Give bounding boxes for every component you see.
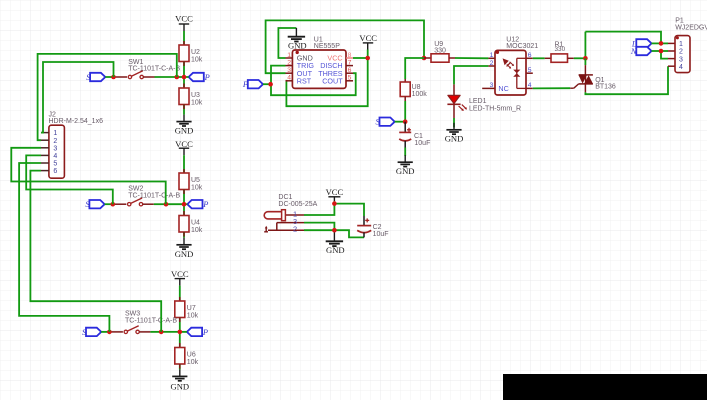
svg-text:3: 3	[490, 82, 494, 89]
svg-text:TC-1101T-C-A-B: TC-1101T-C-A-B	[125, 318, 177, 325]
svg-text:BT136: BT136	[595, 84, 616, 91]
svg-text:TC-1101T-C-A-B: TC-1101T-C-A-B	[128, 66, 180, 73]
svg-text:8: 8	[348, 52, 352, 59]
svg-text:C1: C1	[414, 133, 423, 140]
svg-text:U2: U2	[191, 49, 200, 56]
svg-text:RST: RST	[297, 76, 312, 85]
svg-text:U7: U7	[187, 305, 196, 312]
svg-text:1: 1	[679, 41, 683, 48]
svg-text:VCC: VCC	[171, 269, 189, 279]
svg-text:7: 7	[348, 59, 352, 66]
svg-text:4: 4	[53, 153, 57, 160]
svg-text:NE555P: NE555P	[314, 43, 340, 50]
svg-text:COUT: COUT	[322, 76, 343, 85]
svg-text:10k: 10k	[187, 313, 199, 320]
svg-text:P: P	[204, 73, 210, 82]
svg-text:SW3: SW3	[125, 310, 140, 317]
svg-text:U3: U3	[191, 92, 200, 99]
svg-text:10uF: 10uF	[373, 231, 389, 238]
svg-text:3: 3	[679, 56, 683, 63]
svg-text:10k: 10k	[191, 100, 203, 107]
svg-text:SW2: SW2	[128, 185, 143, 192]
svg-text:GND: GND	[170, 382, 189, 392]
svg-text:3: 3	[53, 145, 57, 152]
svg-text:330: 330	[434, 48, 446, 55]
svg-text:GND: GND	[175, 126, 194, 136]
svg-text:10k: 10k	[187, 359, 199, 366]
svg-text:5: 5	[528, 67, 532, 74]
svg-text:LED1: LED1	[469, 98, 487, 105]
svg-text:VCC: VCC	[326, 187, 344, 197]
svg-text:1: 1	[490, 52, 494, 59]
svg-text:3: 3	[287, 67, 291, 74]
svg-text:2: 2	[287, 59, 291, 66]
svg-text:HDR-M-2.54_1x6: HDR-M-2.54_1x6	[49, 118, 104, 125]
svg-text:GND: GND	[396, 166, 415, 176]
svg-text:10k: 10k	[191, 57, 203, 64]
svg-text:GND: GND	[445, 133, 464, 143]
svg-text:2: 2	[53, 138, 57, 145]
svg-text:GND: GND	[175, 249, 194, 259]
svg-text:6: 6	[348, 67, 352, 74]
svg-text:LED-TH-5mm_R: LED-TH-5mm_R	[469, 105, 521, 112]
svg-text:2: 2	[293, 225, 297, 234]
svg-text:6: 6	[528, 52, 532, 59]
svg-text:1: 1	[53, 130, 57, 137]
svg-text:NC: NC	[498, 84, 508, 93]
svg-text:U8: U8	[412, 84, 421, 91]
svg-text:U5: U5	[191, 177, 200, 184]
svg-text:2: 2	[679, 49, 683, 56]
svg-text:WJ2EDGVEB: WJ2EDGVEB	[675, 24, 707, 31]
svg-text:TC-1101T-C-A-B: TC-1101T-C-A-B	[128, 193, 180, 200]
svg-text:MOC3021: MOC3021	[506, 43, 538, 50]
svg-text:6: 6	[53, 168, 57, 175]
svg-text:100k: 100k	[412, 91, 428, 98]
svg-text:5: 5	[348, 75, 352, 82]
svg-text:10uF: 10uF	[414, 140, 430, 147]
svg-text:P: P	[202, 328, 208, 337]
svg-text:10k: 10k	[191, 227, 203, 234]
svg-text:P: P	[242, 80, 248, 89]
svg-text:P: P	[202, 200, 208, 209]
svg-text:N: N	[630, 47, 637, 56]
svg-text:GND: GND	[326, 245, 345, 255]
svg-text:VCC: VCC	[359, 33, 377, 43]
svg-text:U6: U6	[187, 352, 196, 359]
svg-text:U4: U4	[191, 220, 200, 227]
svg-text:DC-005-25A: DC-005-25A	[278, 201, 317, 208]
svg-text:10k: 10k	[191, 185, 203, 192]
svg-text:330: 330	[555, 46, 566, 53]
svg-text:GND: GND	[288, 40, 307, 50]
svg-text:2: 2	[490, 60, 494, 67]
svg-text:4: 4	[287, 75, 291, 82]
svg-text:1: 1	[287, 52, 291, 59]
svg-text:VCC: VCC	[175, 13, 193, 23]
svg-text:4: 4	[679, 64, 683, 71]
svg-text:4: 4	[528, 82, 532, 89]
svg-text:5: 5	[53, 161, 57, 168]
